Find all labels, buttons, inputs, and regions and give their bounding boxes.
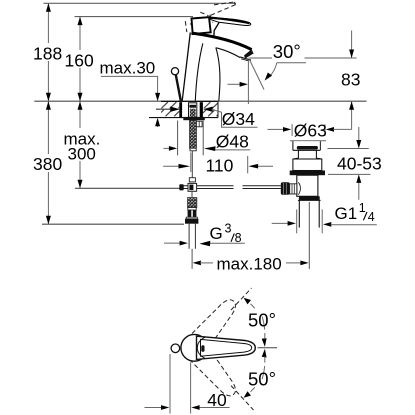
svg-text:110: 110 [206, 156, 234, 176]
side knob [281, 182, 290, 195]
angular dimension upper 50deg [244, 298, 276, 347]
wire top reference line (lever raised height) [44, 2, 237, 4]
node slanted ray 30deg [249, 60, 264, 90]
angular dimension lower 50deg [244, 349, 276, 398]
svg-text:G: G [210, 224, 223, 243]
label G3/8 [164, 222, 245, 247]
svg-text:8: 8 [235, 231, 242, 245]
wire angular arc arrow left [228, 83, 241, 85]
dimension D63 [268, 121, 352, 141]
svg-text:40: 40 [207, 390, 227, 410]
dimension 40-53 [328, 127, 382, 200]
wire lever-top reference line [75, 16, 194, 18]
rod center block [188, 183, 197, 191]
svg-text:300: 300 [68, 145, 96, 164]
dimension arrows D34 [156, 108, 173, 110]
label G1 1/4 [272, 201, 377, 233]
faucet body outline [182, 33, 190, 101]
wire spout outlet reference line [249, 57, 272, 59]
body bottom band [299, 196, 320, 200]
dashed extension lower [231, 386, 254, 410]
dashed handle rotated down 50deg [187, 342, 243, 402]
wire mounting surface line [34, 100, 366, 102]
knob circle [171, 344, 180, 353]
svg-text:50°: 50° [248, 309, 276, 331]
svg-text:Ø34: Ø34 [222, 109, 255, 129]
label D63 underline [290, 140, 326, 142]
dimension 110 [163, 153, 273, 176]
svg-text:max.180: max.180 [217, 255, 282, 274]
flexible hose [188, 224, 190, 249]
body [297, 175, 318, 196]
supply hose G3/8 thread [188, 198, 197, 208]
label D34 leader [212, 109, 258, 127]
deck top edge [161, 100, 218, 102]
svg-text:1: 1 [359, 201, 366, 215]
faucet shank speckle in deck [190, 109, 196, 117]
dimension max.180 [193, 255, 309, 274]
stopper cap [297, 146, 318, 150]
mounting deck hatched left part [161, 102, 179, 118]
node vertical ray from aerator [247, 60, 249, 105]
pop-up waste assembly [281, 141, 326, 269]
svg-text:40-53: 40-53 [337, 154, 382, 174]
faucet body top thick band [191, 33, 251, 50]
seal ring [290, 171, 325, 176]
30 degree annotation [228, 40, 307, 104]
faucet: dashed raised lever outline [185, 2, 235, 33]
dimension 188 [33, 3, 64, 101]
tail pipe [298, 201, 300, 228]
mounting hole walls [179, 102, 182, 117]
flange neck [293, 150, 322, 159]
dimension 83 [341, 31, 360, 130]
pop-up actuator knob [171, 68, 178, 75]
knob connector [290, 184, 297, 194]
dimension 160 [65, 17, 95, 102]
svg-text:Ø48: Ø48 [216, 132, 249, 152]
flange cylinder [293, 159, 322, 171]
dimension max.300 [64, 101, 101, 188]
faucet aerator [244, 51, 254, 59]
deck bottom line [149, 117, 218, 119]
faucet spout underside [217, 48, 241, 58]
svg-text:3: 3 [225, 222, 232, 236]
wire angular arc arrow right with arc [270, 63, 277, 77]
svg-text:380: 380 [33, 154, 62, 174]
dashed extension upper [231, 288, 252, 310]
dashed handle rotated up 50deg [187, 294, 243, 354]
faucet lever neck [214, 23, 219, 37]
svg-text:max.30: max.30 [100, 59, 156, 78]
wire hose end line (max.300) [75, 187, 184, 189]
faucet lever loop [192, 17, 211, 34]
faucet shank washer below deck [183, 117, 205, 120]
svg-text:4: 4 [368, 210, 375, 224]
svg-text:Ø63: Ø63 [294, 121, 327, 141]
svg-text:188: 188 [33, 44, 62, 64]
svg-text:83: 83 [341, 70, 360, 90]
faucet threaded shank [190, 120, 197, 148]
dimension 380 [33, 101, 63, 224]
svg-text:30°: 30° [273, 40, 301, 62]
dimension 40 (bottom) [145, 354, 230, 414]
handle axis extension [258, 347, 278, 349]
faucet shank box in deck [189, 103, 197, 117]
svg-text:50°: 50° [248, 368, 276, 390]
body circle [181, 334, 208, 361]
pop-up actuator rod behind faucet [176, 75, 181, 101]
dimension max.30 (leader with underline) [100, 59, 161, 128]
wire rod end line (380) [42, 223, 184, 225]
stopper rim [293, 141, 320, 150]
faucet lever blade [209, 17, 251, 25]
faucet spout tip face [245, 50, 252, 56]
svg-text:G1: G1 [335, 204, 358, 223]
svg-text:160: 160 [65, 51, 94, 71]
handle solid [197, 336, 256, 359]
pop-up horizontal rod [184, 185, 234, 187]
mounting deck hatched right part [203, 102, 218, 118]
rod left knob [179, 184, 183, 190]
pop-up pull rod [191, 151, 193, 178]
